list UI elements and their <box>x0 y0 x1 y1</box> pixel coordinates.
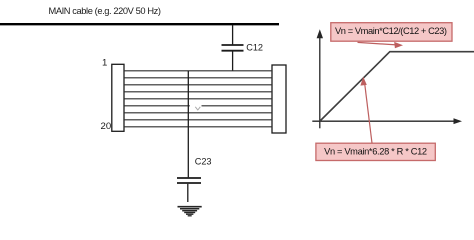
capacitor C12 <box>222 45 244 51</box>
svg-text:1: 1 <box>102 57 107 68</box>
wire: node Vn tap to C23 <box>187 71 189 178</box>
ground <box>178 207 202 216</box>
graph y-axis <box>317 29 323 128</box>
svg-text:Vn = Vmain*C12/(C12 + C23): Vn = Vmain*C12/(C12 + C23) <box>335 26 447 36</box>
graph curve Vn vs f <box>320 52 474 121</box>
wire: cable to C12 <box>232 25 234 45</box>
arrow: box2 to curve slope <box>360 77 372 144</box>
arrow: box1 to curve knee <box>358 42 404 48</box>
wire: C12 to ribbon pin row <box>232 52 234 71</box>
callout box: Vn = Vmain*C12/(C12 + C23) <box>331 23 452 42</box>
ribbon cable wires <box>124 71 272 127</box>
svg-text:MAIN cable (e.g. 220V 50 Hz): MAIN cable (e.g. 220V 50 Hz) <box>49 6 162 16</box>
capacitor C23 <box>177 178 201 183</box>
svg-text:Vn = Vmain*6.28 * R * C12: Vn = Vmain*6.28 * R * C12 <box>324 147 427 157</box>
svg-text:C12: C12 <box>246 43 263 53</box>
connector J1 right housing <box>272 65 286 133</box>
callout box: Vn = Vmain*6.28 * R * C12 <box>316 143 435 160</box>
graph x-axis <box>312 118 462 124</box>
svg-text:20: 20 <box>101 121 112 132</box>
cursor artifact mark <box>195 107 200 110</box>
connector J1 left housing <box>112 64 124 131</box>
wire: MAIN cable bus <box>0 23 279 25</box>
wire: C23 to ground <box>187 184 189 202</box>
svg-text:C23: C23 <box>195 156 212 166</box>
